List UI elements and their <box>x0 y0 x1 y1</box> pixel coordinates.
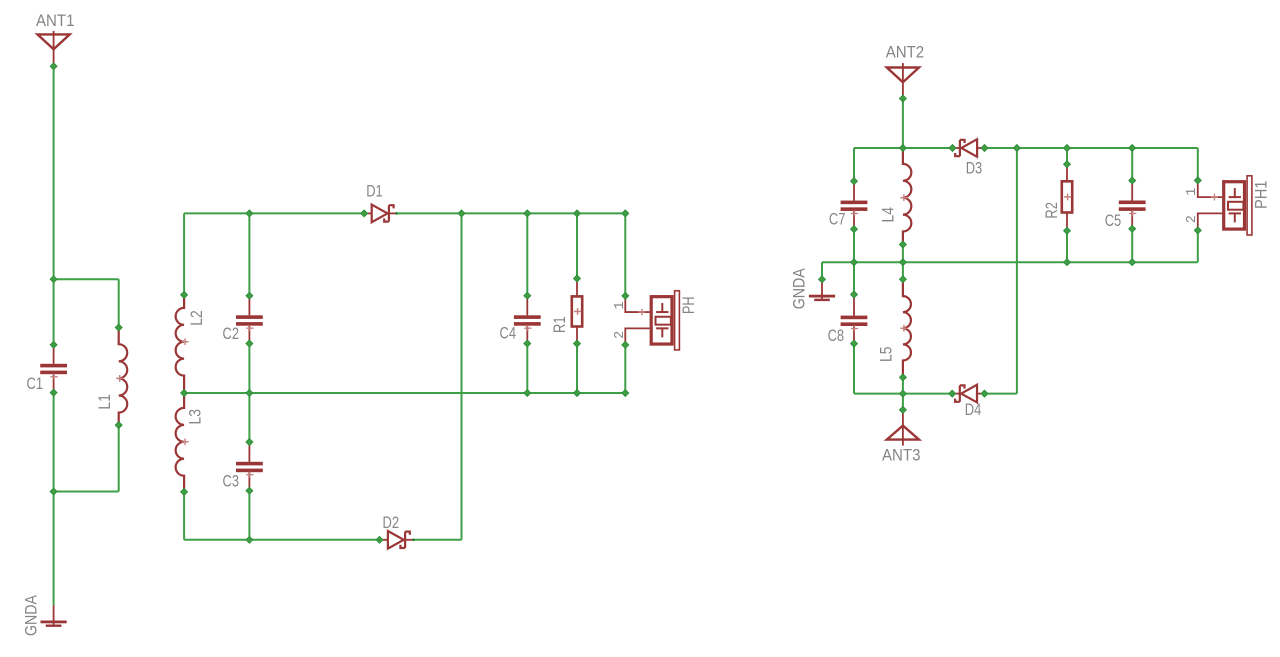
capacitor C4 <box>514 296 541 344</box>
inductor L5 <box>900 279 911 377</box>
wire <box>397 212 626 214</box>
node R2 pin 2 <box>1064 227 1071 234</box>
junction <box>246 390 253 397</box>
node D1 cathode <box>395 212 398 215</box>
wire <box>902 394 904 410</box>
wire <box>54 491 119 493</box>
wire <box>854 147 953 149</box>
svg-text:D1: D1 <box>366 181 383 200</box>
node L1 pin 1 <box>115 324 122 331</box>
node ANT2 pin <box>900 95 907 102</box>
antenna ANT3 <box>887 410 919 446</box>
node L2 pin 1 <box>181 292 188 299</box>
wire <box>821 262 823 279</box>
node C8 pin 1 <box>851 291 858 298</box>
node D4 pin <box>949 390 956 397</box>
svg-text:1: 1 <box>613 301 628 309</box>
node C8 pin 2 <box>851 340 858 347</box>
capacitor C3 <box>236 442 263 491</box>
node GNDA pin <box>819 276 826 283</box>
junction <box>900 259 907 266</box>
piezo buzzer PH1 <box>1198 176 1252 235</box>
inductor L2 <box>176 295 189 393</box>
svg-text:ANT3: ANT3 <box>882 446 921 465</box>
inductor L1 <box>116 328 127 426</box>
node R1 pin 2 <box>574 340 581 347</box>
svg-text:L4: L4 <box>878 207 897 223</box>
diode D1 (schottky) <box>364 205 397 223</box>
wire <box>853 229 855 294</box>
node C3 pin 2 <box>246 487 253 494</box>
node PH pin 1 <box>622 292 629 299</box>
wire <box>414 539 462 541</box>
wire <box>54 278 119 280</box>
junction <box>900 145 907 152</box>
node D1 anode <box>361 210 368 217</box>
node C5 pin 2 <box>1129 225 1136 232</box>
wire <box>624 213 626 295</box>
wire <box>902 262 904 279</box>
wire <box>461 213 463 539</box>
wire <box>184 212 364 214</box>
wire <box>1131 148 1133 181</box>
node ANT3 pin <box>900 407 907 414</box>
wire <box>985 393 1017 395</box>
node C7 pin 2 <box>851 226 858 233</box>
wire <box>118 279 120 327</box>
junction <box>1129 259 1136 266</box>
inductor L3 <box>176 393 189 492</box>
svg-text:D3: D3 <box>966 158 983 177</box>
node C2 pin 2 <box>246 340 253 347</box>
junction <box>50 276 57 283</box>
svg-text:R2: R2 <box>1042 202 1061 219</box>
junction <box>524 390 531 397</box>
node L1 pin 2 <box>115 422 122 429</box>
node C3 pin 1 <box>246 439 253 446</box>
node L4 pin 2 <box>900 241 907 248</box>
node PH pin 2 <box>622 342 629 349</box>
node C7 pin 1 <box>851 178 858 185</box>
junction <box>246 210 253 217</box>
wire <box>53 66 55 345</box>
node C1 pin 2 <box>50 389 57 396</box>
antenna ANT2 <box>887 63 919 98</box>
capacitor C8 <box>841 295 868 344</box>
node C4 pin 2 <box>524 340 531 347</box>
node C4 pin 1 <box>524 292 531 299</box>
node D3 pin <box>981 145 988 152</box>
svg-text:C1: C1 <box>27 374 44 393</box>
svg-text:C8: C8 <box>828 326 845 345</box>
wire <box>985 147 1198 149</box>
node R1 pin 1 <box>574 275 581 282</box>
svg-text:2: 2 <box>613 331 628 339</box>
junction <box>1064 259 1071 266</box>
svg-text:GNDA: GNDA <box>790 268 809 310</box>
node L5 pin 1 <box>900 276 907 283</box>
svg-text:C2: C2 <box>223 324 240 343</box>
svg-text:C3: C3 <box>223 472 240 491</box>
resistor R1 <box>572 279 582 344</box>
junction <box>1014 145 1021 152</box>
node R2 pin 1 <box>1064 161 1071 168</box>
svg-text:PH: PH <box>679 297 698 315</box>
junction <box>574 390 581 397</box>
svg-text:2: 2 <box>1185 215 1200 223</box>
junction <box>181 390 188 397</box>
wire <box>526 213 528 295</box>
node PH1 pin 1 <box>1194 177 1201 184</box>
wire <box>184 392 625 394</box>
wire <box>902 377 904 393</box>
svg-text:ANT2: ANT2 <box>886 43 925 62</box>
wire <box>248 393 250 442</box>
wire <box>118 425 120 491</box>
node C1 pin 1 <box>50 341 57 348</box>
node D2 anode <box>376 536 383 543</box>
wire <box>853 148 855 181</box>
junction <box>574 210 581 217</box>
svg-text:C5: C5 <box>1105 211 1122 230</box>
junction <box>1064 145 1071 152</box>
junction <box>246 536 253 543</box>
node D4 pin <box>981 390 988 397</box>
node D3 pin <box>949 145 956 152</box>
capacitor C1 <box>40 345 67 393</box>
junction <box>622 210 629 217</box>
wire <box>853 344 855 394</box>
junction <box>851 259 858 266</box>
diode D4 (schottky) <box>952 385 985 403</box>
node C5 pin 1 <box>1129 177 1136 184</box>
wire <box>184 539 379 541</box>
piezo buzzer PH <box>625 291 679 350</box>
svg-text:C4: C4 <box>500 324 517 343</box>
svg-text:1: 1 <box>1185 188 1200 196</box>
junction <box>622 390 629 397</box>
ground GNDA <box>41 605 67 627</box>
wire <box>624 345 626 393</box>
capacitor C5 <box>1119 181 1146 229</box>
wire <box>1066 148 1068 164</box>
svg-text:ANT1: ANT1 <box>36 11 75 30</box>
ground GNDA2 <box>809 279 835 301</box>
wire <box>248 213 250 295</box>
diode D3 (schottky) <box>952 139 985 157</box>
junction <box>50 488 57 495</box>
svg-text:L1: L1 <box>95 394 114 410</box>
wire <box>822 261 1198 263</box>
svg-text:PH1: PH1 <box>1251 181 1270 210</box>
svg-text:D2: D2 <box>383 513 400 532</box>
junction <box>1129 145 1136 152</box>
wire <box>183 213 185 295</box>
svg-text:L5: L5 <box>876 347 895 363</box>
junction <box>900 390 907 397</box>
antenna ANT1 <box>38 31 70 66</box>
node L3 pin 2 <box>181 489 188 496</box>
wire <box>1197 230 1199 262</box>
svg-text:L3: L3 <box>186 409 205 425</box>
wire <box>902 99 904 149</box>
wire <box>854 393 952 395</box>
inductor L4 <box>900 148 911 245</box>
node D2 cathode <box>412 538 415 541</box>
wire <box>183 492 185 540</box>
wire <box>1197 148 1199 180</box>
wire <box>902 245 904 263</box>
wire <box>248 344 250 394</box>
svg-text:D4: D4 <box>965 400 982 419</box>
wire <box>526 344 528 394</box>
wire <box>53 393 55 606</box>
svg-text:GNDA: GNDA <box>22 594 41 636</box>
capacitor C7 <box>841 181 868 229</box>
capacitor C2 <box>236 296 263 344</box>
node C2 pin 1 <box>246 292 253 299</box>
svg-text:C7: C7 <box>829 210 846 229</box>
node L5 pin 2 <box>900 374 907 381</box>
svg-text:L2: L2 <box>187 310 206 326</box>
wire <box>1066 231 1068 263</box>
wire <box>248 491 250 540</box>
resistor R2 <box>1062 164 1072 231</box>
junction <box>524 210 531 217</box>
node ANT1 pin <box>50 63 57 70</box>
wire <box>1131 229 1133 262</box>
wire <box>576 213 578 278</box>
wire <box>576 344 578 393</box>
diode D2 (schottky) <box>380 531 413 549</box>
node PH1 pin 2 <box>1194 227 1201 234</box>
svg-text:R1: R1 <box>550 317 569 334</box>
junction <box>458 210 465 217</box>
wire <box>1016 148 1018 394</box>
